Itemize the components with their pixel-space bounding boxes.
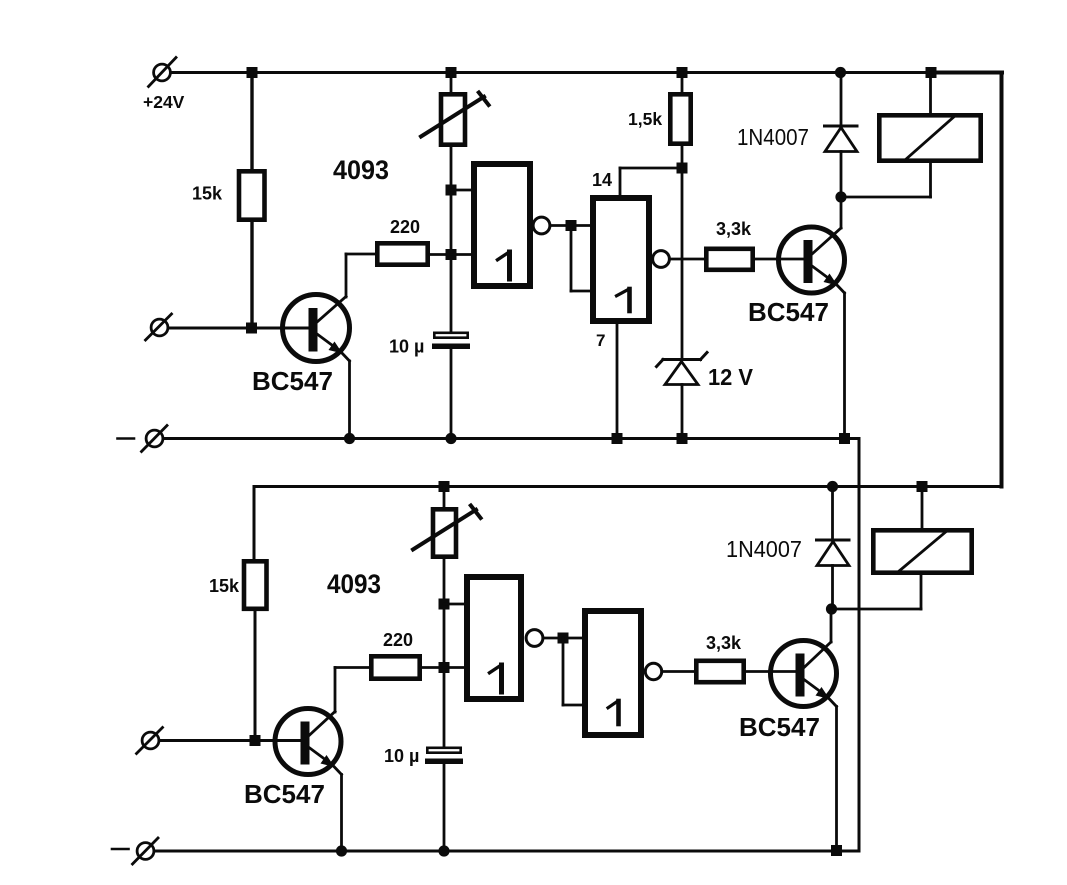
svg-text:3,3k: 3,3k xyxy=(706,633,742,653)
resistor 220 xyxy=(377,243,427,264)
terminal ground 2 xyxy=(112,838,158,864)
node junction gate1 upper input xyxy=(446,185,457,196)
svg-text:BC547: BC547 xyxy=(739,712,820,742)
transistor Q2 BC547 xyxy=(779,227,845,293)
resistor 220 circuit2 xyxy=(371,656,419,678)
gate U1A xyxy=(474,164,530,286)
node junction 1,5k/top rail xyxy=(677,67,688,78)
svg-text:15k: 15k xyxy=(192,184,223,204)
wire to gate3 upper input xyxy=(444,603,464,606)
trimmer P1 xyxy=(421,73,489,145)
svg-text:1N4007: 1N4007 xyxy=(737,124,809,150)
wire U2B out to 3,3k xyxy=(663,670,695,673)
svg-text:BC547: BC547 xyxy=(252,366,333,396)
capacitor C1 10u xyxy=(432,333,470,439)
svg-text:+24V: +24V xyxy=(143,92,185,112)
bubble U2B output xyxy=(645,663,661,679)
resistor 3,3k xyxy=(706,249,752,270)
node junction pin14 / 1,5k xyxy=(677,163,688,174)
wire Q4 emitter xyxy=(835,707,838,851)
node junction pin7/ground xyxy=(612,433,623,444)
node junction U2B input tie xyxy=(558,633,569,644)
wire 15k R1 bottom lead xyxy=(250,222,253,328)
wire Q3 collector xyxy=(335,668,369,713)
node junction trimmer2/rail2 xyxy=(439,481,450,492)
wire U1B input tie down xyxy=(571,226,590,292)
svg-text:4093: 4093 xyxy=(327,569,381,599)
wire 1,5k to zener xyxy=(681,146,684,359)
wire ground interconnect vertical xyxy=(858,439,861,852)
transistor Q1 BC547 xyxy=(283,295,350,362)
zener diode 12V xyxy=(657,353,708,439)
gate U2A xyxy=(467,577,521,699)
svg-text:220: 220 xyxy=(390,217,420,237)
wire ground rail 2 xyxy=(155,850,859,853)
wire to gate3 lower input xyxy=(444,666,464,669)
node junction gate1 lower input xyxy=(446,249,457,260)
wire pin 7 to ground xyxy=(616,324,619,439)
svg-text:10 µ: 10 µ xyxy=(384,746,419,766)
relay K1 xyxy=(841,73,981,198)
wire U2B input tie down xyxy=(563,638,582,705)
wire U1A out to U1B in xyxy=(551,224,590,227)
wire pin 14 xyxy=(620,168,682,195)
svg-text:1N4007: 1N4007 xyxy=(726,536,802,562)
wire base Q1 xyxy=(169,327,310,330)
svg-text:4093: 4093 xyxy=(333,155,389,185)
gate U1B xyxy=(593,198,649,321)
resistor R1 15k xyxy=(239,171,265,219)
node junction gate3 lower input xyxy=(439,662,450,673)
wire right-side vertical feed xyxy=(929,71,1002,75)
resistor R2 15k xyxy=(244,561,267,609)
node junction D1/top rail xyxy=(835,67,846,78)
wire 15k R1 top lead xyxy=(250,73,253,170)
svg-text:BC547: BC547 xyxy=(748,297,829,327)
node junction D2/rail2 xyxy=(827,481,838,492)
node junction gate3 upper input xyxy=(439,599,450,610)
terminal input 1 xyxy=(146,314,172,340)
wire top supply rail xyxy=(172,71,1002,74)
svg-text:10 µ: 10 µ xyxy=(389,337,424,357)
wire Q3 emitter xyxy=(340,775,343,852)
wire 220 to node A xyxy=(430,253,451,256)
wire Q2 emitter xyxy=(843,293,846,439)
gate U2B xyxy=(585,611,641,735)
node junction base Q3 / 15k xyxy=(250,735,261,746)
trimmer P2 xyxy=(413,487,481,557)
transistor Q3 BC547 xyxy=(275,709,342,775)
wire U1B out to 3,3k xyxy=(671,258,705,261)
node junction relay1/top rail xyxy=(926,67,937,78)
svg-text:7: 7 xyxy=(596,331,605,350)
node junction Q2 collector xyxy=(835,191,846,202)
bubble U1A output xyxy=(533,217,550,234)
svg-text:14: 14 xyxy=(592,170,612,190)
bubble U1B output xyxy=(653,251,670,268)
wire to gate1 upper input xyxy=(451,189,471,192)
node junction Q3 emitter/ground2 xyxy=(336,845,347,856)
wire U2A out to U2B in xyxy=(544,637,582,640)
node junction Q4 emitter/ground2 xyxy=(831,845,842,856)
resistor 3,3k circuit2 xyxy=(696,661,743,682)
wire to gate1 lower input xyxy=(451,253,471,256)
transistor Q4 BC547 xyxy=(771,641,837,707)
node junction Q2 emitter/ground xyxy=(839,433,850,444)
wire 15k R2 bottom lead xyxy=(254,611,257,741)
terminal +24V xyxy=(149,58,177,87)
wire Q2 collector xyxy=(840,197,843,228)
wire Q4 collector xyxy=(830,609,833,642)
svg-text:1,5k: 1,5k xyxy=(628,109,662,129)
wire Q1 emitter xyxy=(348,361,351,439)
diode D2 1N4007 xyxy=(817,487,850,610)
wire 220 to node B xyxy=(422,666,444,669)
svg-text:3,3k: 3,3k xyxy=(716,219,752,239)
node junction base Q1 / 15k xyxy=(246,323,257,334)
node junction trimmer1/top rail xyxy=(446,67,457,78)
wire 3,3k to Q2 base xyxy=(755,258,805,261)
resistor 1,5k xyxy=(670,73,690,144)
node junction Q4 collector xyxy=(826,603,837,614)
wire ground rail 1 xyxy=(164,437,859,440)
node junction R1/top rail xyxy=(247,67,258,78)
svg-text:15k: 15k xyxy=(209,576,240,596)
bubble U2A output xyxy=(526,630,543,647)
node junction U1B input tie xyxy=(566,220,577,231)
node junction C2/ground2 xyxy=(438,845,449,856)
wire node B vertical xyxy=(443,559,446,747)
wire 3,3k to Q4 base xyxy=(746,670,797,673)
svg-text:220: 220 xyxy=(383,630,413,650)
wire Q1 collector xyxy=(346,254,375,297)
node junction C1/ground xyxy=(445,433,456,444)
node junction Q1 emitter/ground xyxy=(344,433,355,444)
wire base Q3 xyxy=(160,739,302,742)
diode D1 1N4007 xyxy=(825,73,858,198)
wire node A vertical xyxy=(450,147,453,332)
terminal ground 1 xyxy=(118,426,168,452)
capacitor C2 10u xyxy=(425,748,463,851)
wire supply rail 2 xyxy=(254,487,1002,560)
node junction zener/ground xyxy=(677,433,688,444)
svg-text:12 V: 12 V xyxy=(708,364,754,390)
svg-text:BC547: BC547 xyxy=(244,779,325,809)
node junction relay2/rail2 xyxy=(917,481,928,492)
terminal input 2 xyxy=(137,728,163,754)
relay K2 xyxy=(832,487,972,610)
